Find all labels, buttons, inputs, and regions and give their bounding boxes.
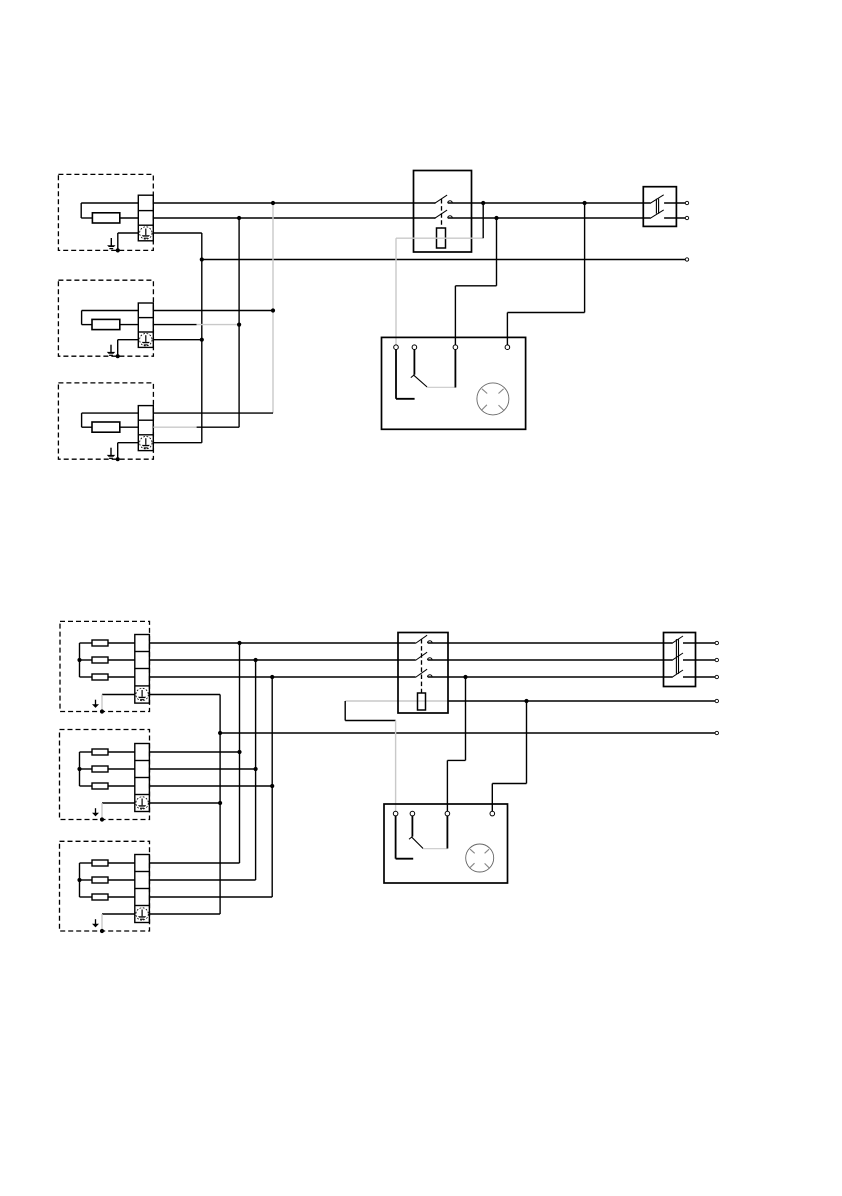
wire: lamp output run to terminal <box>448 700 715 702</box>
lamp H2 (indicator in S2) <box>418 693 426 710</box>
wire: riser down to fan terminal 3 (bottom) <box>446 760 448 811</box>
wire: riser down to fan terminal 4 <box>506 313 508 345</box>
wire: selector arm gray segment (bottom) <box>423 848 447 850</box>
terminal block X5 <box>135 744 150 812</box>
ground (E6) <box>92 919 99 927</box>
ground (E4) <box>92 700 99 708</box>
junction on enclosure E4 edge <box>100 709 104 713</box>
connector J2 link bars <box>676 639 678 674</box>
junction L1 / lamp drop <box>481 201 485 205</box>
connector J2 contact 2 <box>672 653 683 660</box>
wire: loop row1 of E1 <box>81 202 138 204</box>
wire: L2 run switch to connector <box>448 217 651 219</box>
wire: row3 to fan riser vertical <box>465 677 467 760</box>
wire: row2 run connector to terminal <box>683 659 715 661</box>
junction row2 bus / row2 run <box>254 658 258 662</box>
wire: X6 row1 to bus <box>149 862 239 864</box>
wire: row3 run switch to connector <box>428 676 673 678</box>
wire: X2 PE to bus <box>153 339 202 341</box>
wire: X5 PE to PE bus <box>149 802 220 804</box>
terminal M1:1 <box>394 345 399 350</box>
junction row3 bus / X5 row3 <box>270 784 274 788</box>
switch S2 body <box>398 633 448 714</box>
switch S2 pole 1 <box>416 635 433 643</box>
wire: PE run to terminal <box>220 732 715 734</box>
wire: resistor feed of E2 <box>82 324 92 326</box>
PE terminal X3.3 <box>140 437 152 449</box>
resistor R2 (heating element) <box>92 319 120 329</box>
resistor R6.3 (heating element) <box>92 894 108 900</box>
PE terminal X2.3 <box>140 334 152 346</box>
wire: X6 PE to PE bus <box>149 913 220 915</box>
wire: bus stub row2 E5 <box>80 768 93 770</box>
wire: X5 row3 to bus <box>149 785 272 787</box>
resistor R6.2 (heating element) <box>92 877 108 883</box>
wire: M2:1 internal stub <box>396 858 414 860</box>
wire: X1 PE to bus <box>153 232 202 234</box>
junction PE bus / X5 PE <box>218 801 222 805</box>
wire: bus stub row3 E5 <box>80 785 93 787</box>
resistor R6.1 (heating element) <box>92 860 108 866</box>
PE terminal X6.4 <box>136 908 148 920</box>
wire: lamp output gray segment <box>345 700 448 702</box>
wire: left bus of E6 <box>79 863 81 897</box>
wire: resistor to block X1 <box>120 217 139 219</box>
junction row1 bus / X5 row1 <box>237 750 241 754</box>
PE terminal X1.3 <box>140 227 152 239</box>
wire: gray drop to fan M1 terminal 1 <box>395 238 397 345</box>
terminal block X2 <box>138 303 153 347</box>
terminal row3 out <box>715 675 718 678</box>
terminal M1:4 <box>505 345 510 350</box>
wire: fan riser jog (row3) <box>447 759 465 761</box>
wire: fan riser jog <box>455 285 496 287</box>
resistor R4.2 (heating element) <box>92 657 108 663</box>
wire: resistor row2 to block X5 <box>108 768 135 770</box>
wire: M2:3 internal down <box>446 816 448 849</box>
wire: X2 row2 gray segment <box>197 324 240 326</box>
switch S1 pole 2 <box>435 210 453 218</box>
wire: M1:1 internal stub <box>396 398 415 400</box>
wire: PE cell left wire E6 <box>102 913 135 915</box>
resistor R5.2 (heating element) <box>92 766 108 772</box>
wire: fan riser jog 2 <box>507 312 584 314</box>
wire: bus stub row2 E4 <box>80 659 93 661</box>
wire: bus stub row3 E6 <box>80 896 93 898</box>
wire: PE cell left wire E5 <box>102 802 135 804</box>
wire: PE drop of E1 <box>117 233 119 250</box>
wire: riser down to fan terminal 3 <box>454 286 456 345</box>
wire: L2 to fan riser vertical <box>496 218 498 286</box>
junction row1 bus / L1 <box>271 201 275 205</box>
switch S2 pole 3 <box>416 669 433 677</box>
resistor R1 (heating element) <box>92 213 119 223</box>
junction left bus E4 <box>77 658 81 662</box>
wire: M1:1 internal down <box>395 350 397 399</box>
wire: PE drop of E3 <box>117 443 119 460</box>
junction lamp-out / fan riser <box>524 699 528 703</box>
wire: row1 run switch to connector <box>428 642 673 644</box>
wire: row3 bus vertical (bottom) <box>271 677 273 897</box>
wire: loop row1 of E3 <box>82 412 139 414</box>
wire: resistor row3 to block X6 <box>108 896 135 898</box>
selector pivot tick in M1 <box>411 375 415 378</box>
junction PE bus / X2 PE <box>200 338 204 342</box>
wire: row2 run switch to connector <box>428 659 673 661</box>
wire: PE bus vertical <box>201 233 203 443</box>
wire: loop vertical of E2 <box>81 311 83 325</box>
junction row2 bus / L2 <box>237 216 241 220</box>
junction on enclosure E6 edge <box>100 929 104 933</box>
switch S1 body <box>414 171 472 253</box>
wire: row1 run connector to terminal <box>683 642 715 644</box>
wire: X2 row2 black segment <box>153 324 196 326</box>
junction on enclosure E5 edge <box>100 817 104 821</box>
wire: L2 run block X1 to switch <box>153 217 435 219</box>
PE terminal X4.4 <box>136 688 148 700</box>
wire: X6 row3 to bus <box>149 896 272 898</box>
selector arm in M1 <box>413 375 427 387</box>
wire: M2:1 internal down <box>395 816 397 859</box>
ground (E3) <box>107 448 115 459</box>
wire: L1 to fan riser vertical <box>584 203 586 313</box>
terminal M2:3 <box>445 811 450 816</box>
wire: riser down to fan terminal 4 (bottom) <box>491 784 493 812</box>
wire: row1 bus vertical (bottom) <box>239 643 241 863</box>
terminal M1:2 <box>412 345 417 350</box>
connector J1 link bars <box>656 199 658 214</box>
wire: row3 run connector to terminal <box>683 676 715 678</box>
wire: row2 bus vertical <box>238 218 240 427</box>
wire: PE cell left wire E4 <box>102 694 135 696</box>
wire: X3 PE to bus <box>153 442 202 444</box>
wire: left bus of E5 <box>79 752 81 786</box>
junction on enclosure E3 edge <box>116 457 120 461</box>
wire: lamp staple horizontal <box>345 720 395 722</box>
wire: loop vertical of E1 <box>80 203 82 218</box>
heater enclosure E1 (dashed) <box>58 174 153 250</box>
resistor R5.1 (heating element) <box>92 749 108 755</box>
wire: lamp staple vertical <box>344 701 346 721</box>
heater enclosure E4 (dashed) <box>60 621 150 711</box>
resistor R3 (heating element) <box>92 422 120 432</box>
junction row1 bus / row1 run <box>237 641 241 645</box>
wire: resistor row3 to block X5 <box>108 785 135 787</box>
terminal block X1 <box>138 195 153 241</box>
connector J1 contact 2 <box>650 210 664 219</box>
junction row1 bus / X2 row1 <box>271 308 275 312</box>
connector J2 contact 3 <box>672 670 683 677</box>
terminal N out <box>685 258 688 261</box>
wire: resistor to block X2 <box>120 324 139 326</box>
connector J2 contact 1 <box>672 636 683 643</box>
junction PE bus / N run <box>200 257 204 261</box>
wire: resistor row2 to block X6 <box>108 879 135 881</box>
wire: M1:2 internal down <box>413 350 415 375</box>
lamp H1 (indicator in S1) <box>437 228 446 248</box>
selector arm in M2 <box>411 837 423 849</box>
wire: X3 row2 gray segment <box>153 426 196 428</box>
terminal M2:4 <box>490 811 495 816</box>
resistor R4.1 (heating element) <box>92 640 108 646</box>
wire: X3 row1 to bus <box>153 412 273 414</box>
wire: row1 bus vertical (gray) <box>272 203 274 413</box>
fan unit M1 body <box>382 337 526 429</box>
wire: PE gray drop E5 <box>101 803 103 820</box>
wire: resistor to block X3 <box>120 426 139 428</box>
terminal M2:1 <box>393 811 398 816</box>
wire: gray drop to fan M2 terminal 1 <box>395 721 397 812</box>
junction L1 / fan riser <box>583 201 587 205</box>
wire: PE gray drop E4 <box>101 695 103 712</box>
ground (E1) <box>107 238 115 249</box>
wire: L1 run block X1 to switch <box>153 202 435 204</box>
wire: PE cell to drop of E1 <box>118 232 139 234</box>
junction on enclosure E1 edge <box>116 248 120 252</box>
wire: bus stub row1 E4 <box>80 642 93 644</box>
terminal M1:3 <box>453 345 458 350</box>
wire: row1 run X4 to switch <box>149 642 415 644</box>
wire: X2 row1 to bus <box>153 310 273 312</box>
wire: row2 run X4 to switch <box>149 659 415 661</box>
wire: L2 run connector to terminal <box>664 217 685 219</box>
wire: resistor feed of E3 <box>82 426 92 428</box>
wire: PE cell to drop of E3 <box>118 442 139 444</box>
switch S1 mechanical link (dashed) <box>441 199 443 228</box>
terminal row1 out <box>715 641 718 644</box>
ground (E5) <box>92 808 99 816</box>
connector J1 contact 1 <box>650 195 664 204</box>
wire: row3 run X4 to switch <box>149 676 415 678</box>
wire: X4 PE to PE bus <box>149 694 220 696</box>
junction left bus E6 <box>77 878 81 882</box>
wire: X5 row2 to bus <box>149 768 255 770</box>
wire: resistor row1 to block X5 <box>108 751 135 753</box>
wire: loop row1 of E2 <box>82 310 139 312</box>
terminal block X6 <box>135 855 150 923</box>
terminal block X3 <box>138 406 153 451</box>
terminal lamp-out <box>715 699 718 702</box>
wire: left bus of E4 <box>79 643 81 677</box>
wire: M2:2 internal down <box>411 816 413 837</box>
wire: lamp feed gray <box>396 237 483 239</box>
wire: PE drop of E2 <box>117 340 119 357</box>
wire: loop vertical of E3 <box>81 413 83 427</box>
terminal M2:2 <box>410 811 415 816</box>
wire: bus stub row1 E6 <box>80 862 93 864</box>
PE terminal X5.4 <box>136 797 148 809</box>
wire: resistor row2 to block X4 <box>108 659 135 661</box>
wire: lamp to L1 drop <box>482 203 484 238</box>
junction row2 bus / X5 row2 <box>254 767 258 771</box>
resistor R5.3 (heating element) <box>92 783 108 789</box>
switch S1 pole 1 <box>435 195 453 203</box>
junction on enclosure E2 edge <box>116 354 120 358</box>
wire: X5 row1 to bus <box>149 751 239 753</box>
junction row3 bus / row3 run <box>270 675 274 679</box>
ground (E2) <box>107 345 115 356</box>
wire: PE cell to drop of E2 <box>118 339 139 341</box>
wire: L1 run connector to terminal <box>664 202 685 204</box>
wire: PE gray drop E6 <box>101 914 103 931</box>
wire: N run <box>202 259 685 261</box>
terminal block X4 <box>135 635 150 704</box>
fan rotor symbol M2 <box>466 844 494 872</box>
wire: resistor row1 to block X6 <box>108 862 135 864</box>
junction L2 / fan riser <box>494 216 498 220</box>
switch S2 mechanical link (dashed) <box>421 639 423 693</box>
junction left bus E5 <box>77 767 81 771</box>
connector J2 body <box>664 633 696 687</box>
terminal L2 out <box>685 216 688 219</box>
terminal L1 out <box>685 201 688 204</box>
terminal row2 out <box>715 658 718 661</box>
wire: lamp-out to fan riser vertical <box>526 701 528 784</box>
wire: PE bus vertical (bottom) <box>219 695 221 915</box>
wire: selector arm gray segment <box>427 386 455 388</box>
wire: bus stub row2 E6 <box>80 879 93 881</box>
wire: resistor row1 to block X4 <box>108 642 135 644</box>
resistor R4.3 (heating element) <box>92 674 108 680</box>
junction row3 / fan riser <box>463 675 467 679</box>
fan unit M2 body <box>384 804 508 883</box>
connector J1 body <box>643 187 676 227</box>
wire: resistor feed of E1 <box>81 217 92 219</box>
junction PE bus / PE run <box>218 731 222 735</box>
wire: L1 run switch to connector <box>448 202 651 204</box>
wire: fan riser jog (lamp-out) <box>492 783 526 785</box>
switch S2 pole 2 <box>416 652 433 660</box>
fan rotor symbol M1 <box>477 383 509 415</box>
wire: X3 row2 black segment <box>197 426 240 428</box>
terminal PE out <box>715 731 718 734</box>
heater enclosure E2 (dashed) <box>58 280 153 356</box>
wire: bus stub row3 E4 <box>80 676 93 678</box>
selector pivot tick in M2 <box>409 837 412 840</box>
heater enclosure E6 (dashed) <box>60 841 150 931</box>
wire: row2 bus vertical (bottom) <box>255 660 257 880</box>
junction row2 bus / X2 row2 <box>237 323 241 327</box>
heater enclosure E5 (dashed) <box>60 730 150 820</box>
wire: X6 row2 to bus <box>149 879 255 881</box>
wire: M1:3 internal down <box>454 350 456 388</box>
heater enclosure E3 (dashed) <box>58 383 153 459</box>
wire: bus stub row1 E5 <box>80 751 93 753</box>
wire: resistor row3 to block X4 <box>108 676 135 678</box>
